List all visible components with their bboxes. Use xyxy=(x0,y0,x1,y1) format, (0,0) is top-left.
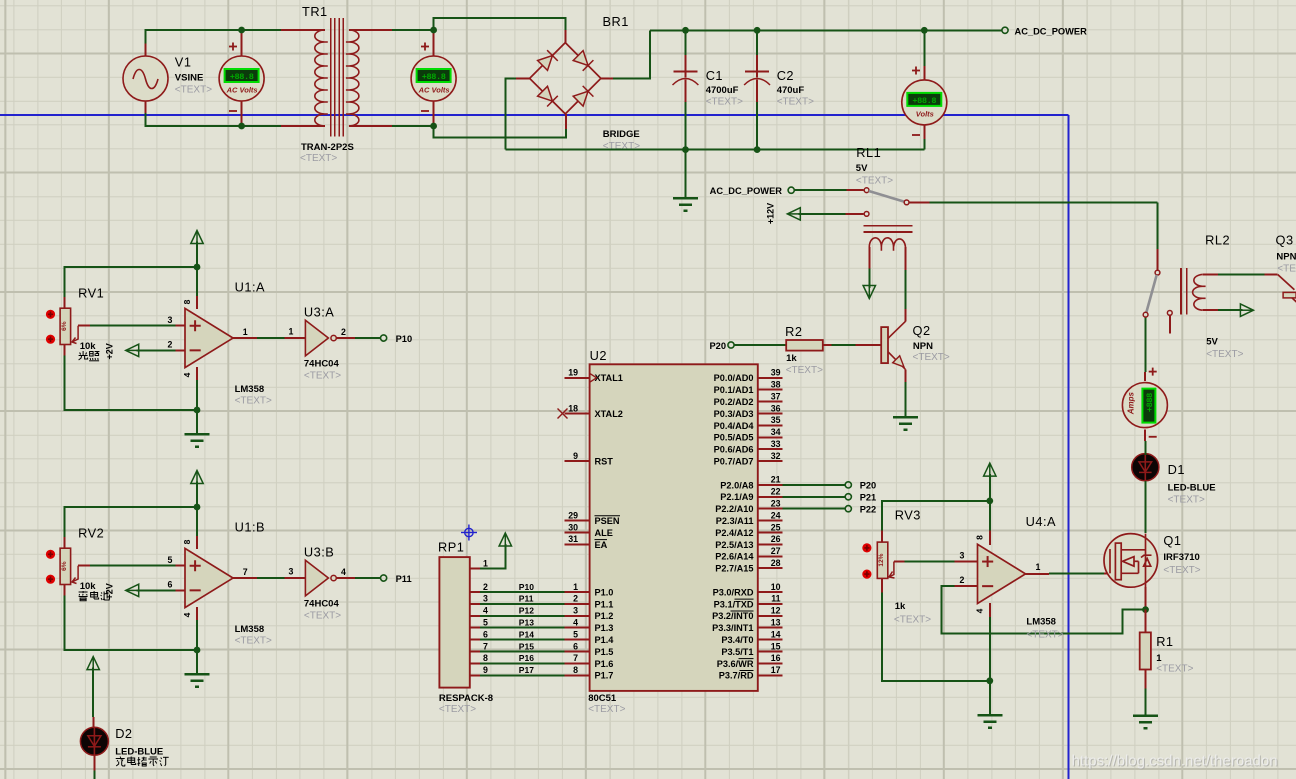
svg-text:<TEXT>: <TEXT> xyxy=(786,365,823,376)
svg-text:P15: P15 xyxy=(519,641,534,651)
svg-text:BR1: BR1 xyxy=(603,14,629,29)
svg-text:<TEXT>: <TEXT> xyxy=(175,85,212,96)
LED D1 body xyxy=(1132,454,1159,481)
power arrow up (U1:B pin8) xyxy=(191,471,203,484)
svg-text:1: 1 xyxy=(1156,653,1162,664)
wire C2 top lead xyxy=(756,30,758,55)
svg-text:9: 9 xyxy=(573,451,578,461)
RV3 wiper arrow xyxy=(889,562,895,579)
wire BR1 plus up to DC rail xyxy=(613,30,650,78)
op-amp U1:B (LM358) xyxy=(185,548,233,607)
RL2 switch NC contact xyxy=(1167,311,1172,316)
wire meter2 bottom to BR1 AC- xyxy=(434,126,566,138)
pin C1 bottom xyxy=(685,80,687,103)
svg-text:P3.6/WR: P3.6/WR xyxy=(717,659,754,669)
wire U4:A feedback (pin2 to Q1 source) xyxy=(942,586,1143,633)
svg-text:1k: 1k xyxy=(786,353,797,364)
terminal P20 (near U2) xyxy=(728,342,734,348)
wire meter1 to TR1 primary top xyxy=(242,29,281,31)
pin R2 right xyxy=(823,344,832,346)
pin U2 P0.4/AD4 stub (pin 35) xyxy=(758,424,783,426)
svg-text:RP1: RP1 xyxy=(438,540,464,555)
pin RL1 NO lead xyxy=(909,201,930,203)
pin V1 top stub xyxy=(145,44,147,57)
resistor R1 body xyxy=(1140,632,1151,669)
svg-text:3: 3 xyxy=(289,567,294,577)
svg-text:P3.7/RD: P3.7/RD xyxy=(719,671,754,681)
pin U2 P0.0/AD0 stub (pin 39) xyxy=(758,377,783,379)
U2 P3.1/TXD overline xyxy=(735,598,754,600)
pin RL2 NC stub xyxy=(1169,315,1171,333)
transistor Q3 partial symbol xyxy=(1278,275,1296,303)
sheet border (blue) xyxy=(0,115,1069,779)
wire U2 P2.0 to terminal P20 xyxy=(783,484,846,486)
RV2 actuator decrement dot xyxy=(46,575,55,584)
svg-text:RV3: RV3 xyxy=(895,508,921,523)
svg-text:D1: D1 xyxy=(1168,462,1185,477)
wire bottom DC rail xyxy=(505,149,924,151)
pin TR1 primary bottom lead xyxy=(281,125,325,127)
pin U2 P1.1 stub (pin 2) xyxy=(565,603,590,605)
transistor Q2 body xyxy=(881,321,905,369)
svg-text:+12V: +12V xyxy=(766,203,776,224)
wire AC_DC_POWER to RL1 pole xyxy=(794,189,846,191)
svg-text:39: 39 xyxy=(771,368,781,378)
junction U1:A pin4/RV1 bottom xyxy=(194,407,201,414)
svg-text:LM358: LM358 xyxy=(235,624,265,635)
svg-text:LED-BLUE: LED-BLUE xyxy=(115,746,163,757)
label xudianchi 蓄电池 (CJK) xyxy=(79,591,88,601)
pin U2 P1.6 stub (pin 7) xyxy=(565,662,590,664)
wire bottom rail to ground xyxy=(685,150,687,198)
pin RP1 pin5 stub xyxy=(470,627,480,629)
RV2 wiper arrow xyxy=(72,566,78,584)
pin U1:A output stub xyxy=(233,337,257,339)
wire TR1 secondary top to meter2 xyxy=(392,29,434,31)
pin U2 P0.1/AD1 stub (pin 38) xyxy=(758,389,783,391)
pin RV1 top stub xyxy=(64,297,66,308)
U2 PSEN overline xyxy=(595,515,621,517)
RV3 actuator increment dot xyxy=(862,543,871,552)
+2V power arrow (U1:B) xyxy=(126,584,139,596)
svg-text:RST: RST xyxy=(595,457,614,467)
svg-text:<TEXT>: <TEXT> xyxy=(304,371,341,382)
wire U1:A pin8 up xyxy=(196,267,198,296)
wire meter3 top lead xyxy=(923,30,925,66)
wire power to U4 junction xyxy=(989,474,991,501)
svg-text:4700uF: 4700uF xyxy=(706,85,739,96)
svg-text:P14: P14 xyxy=(519,629,534,639)
svg-text:P20: P20 xyxy=(860,481,877,491)
wire U1:B pin4 down xyxy=(196,620,198,650)
svg-text:3: 3 xyxy=(168,315,173,325)
pin U3:A output stub xyxy=(337,337,356,339)
pin U1:A - input stub (pin 2) xyxy=(175,349,185,351)
power arrow up (U4:A pin8) xyxy=(984,463,996,476)
pin U2 P0.7/AD7 stub (pin 32) xyxy=(758,460,783,462)
AC voltmeter (right of TR1) xyxy=(411,56,456,101)
pin Q1 gate stub xyxy=(1104,572,1110,574)
pin U4:A - input stub (pin 2) xyxy=(954,585,977,587)
pin RV1 bottom stub xyxy=(64,345,66,356)
svg-text:P1.2: P1.2 xyxy=(595,611,614,621)
resistor pack RP1 body xyxy=(439,557,469,688)
svg-text:XTAL2: XTAL2 xyxy=(595,409,623,419)
svg-text:P1.0: P1.0 xyxy=(595,587,614,597)
pin U2 P3.4/T0 stub (pin 14) xyxy=(758,639,783,641)
watermark text xyxy=(1072,753,1279,771)
pin U2 XTAL1 stub (pin 19) xyxy=(565,377,590,379)
svg-text:<TE: <TE xyxy=(1277,264,1296,275)
RL1 coil core xyxy=(864,226,913,232)
U2 P3.7/RD overline xyxy=(740,670,754,672)
pin U2 P3.6/WR stub (pin 16) xyxy=(758,662,783,664)
svg-text:P0.5/AD5: P0.5/AD5 xyxy=(714,433,754,443)
svg-text:P3.0/RXD: P3.0/RXD xyxy=(713,587,754,597)
meter2 minus sign xyxy=(421,110,429,112)
svg-text:IRF3710: IRF3710 xyxy=(1163,552,1199,563)
wire RL2 coil top to Q3 xyxy=(1218,274,1265,276)
svg-text:U2: U2 xyxy=(590,348,607,363)
wire ammeter to D1 xyxy=(1144,441,1146,455)
svg-text:12: 12 xyxy=(771,606,781,616)
transformer TR1 secondary winding xyxy=(346,30,359,126)
svg-text:35: 35 xyxy=(771,415,781,425)
inverter U3:B (74HC04) xyxy=(305,560,336,596)
pin R1 top xyxy=(1145,610,1147,633)
wire C1 bottom lead xyxy=(685,102,687,150)
power arrow right (RL2 coil) xyxy=(1240,304,1253,316)
pin TR1 primary top lead xyxy=(281,29,325,31)
svg-text:VSINE: VSINE xyxy=(175,73,204,84)
svg-text:<TEXT>: <TEXT> xyxy=(1163,565,1200,576)
svg-text:6: 6 xyxy=(483,629,488,639)
wire U1:A out to U3:A in xyxy=(257,337,284,339)
svg-text:4: 4 xyxy=(975,608,985,613)
svg-text:AC Volts: AC Volts xyxy=(226,86,258,95)
potentiometer RV1 body xyxy=(60,308,71,344)
svg-text:P0.0/AD0: P0.0/AD0 xyxy=(714,373,754,383)
svg-text:P21: P21 xyxy=(860,493,877,503)
pin RP1 pin7 stub xyxy=(470,651,480,653)
svg-text:P2.2/A10: P2.2/A10 xyxy=(715,504,753,514)
RV1 wiper arrow xyxy=(72,326,78,344)
svg-text:P10: P10 xyxy=(396,334,413,344)
svg-text:12%: 12% xyxy=(878,553,885,566)
svg-text:+88.8: +88.8 xyxy=(422,72,446,82)
ground (bridge negative rail) xyxy=(673,198,698,210)
svg-text:P3.4/T0: P3.4/T0 xyxy=(721,635,753,645)
pin U2 P3.7/RD stub (pin 17) xyxy=(758,674,783,676)
capacitor C1 plates xyxy=(673,71,699,85)
diode BR1 top-right xyxy=(573,51,593,71)
svg-text:Q3: Q3 xyxy=(1276,233,1294,248)
svg-text:TRAN-2P2S: TRAN-2P2S xyxy=(301,142,354,153)
svg-text:1k: 1k xyxy=(895,601,906,612)
op-amp U1:A (LM358) xyxy=(185,308,233,367)
svg-text:<TEXT>: <TEXT> xyxy=(1168,495,1205,506)
wire RP1 pin7 to U2 P1.5 xyxy=(480,651,565,653)
RL1 coil contact circle xyxy=(864,212,869,217)
svg-text:<TEXT>: <TEXT> xyxy=(235,636,272,647)
pin U4:A V+ (pin 8) xyxy=(989,531,991,545)
pin U2 P3.1/TXD stub (pin 11) xyxy=(758,603,783,605)
transformer TR1 primary winding xyxy=(315,30,328,126)
svg-text:P2.6/A14: P2.6/A14 xyxy=(715,552,754,562)
U2 P3.2/INT0 overline xyxy=(731,610,754,612)
pin U2 P1.7 stub (pin 8) xyxy=(565,674,590,676)
svg-text:U3:A: U3:A xyxy=(304,305,334,320)
wire C2 bottom lead xyxy=(756,102,758,150)
svg-text:<TEXT>: <TEXT> xyxy=(300,153,337,164)
svg-text:8: 8 xyxy=(182,299,192,304)
meter2 plus sign xyxy=(421,43,429,51)
wire junction to RV3 bottom xyxy=(882,593,990,681)
pin TR1 secondary top lead xyxy=(349,29,392,31)
svg-text:27: 27 xyxy=(771,546,781,556)
wire Q2 emitter to ground xyxy=(905,382,907,417)
pin U2 P3.2/INT0 stub (pin 12) xyxy=(758,615,783,617)
wire C1 top lead xyxy=(685,30,687,55)
svg-text:TR1: TR1 xyxy=(302,4,328,19)
junction C2 bottom xyxy=(754,146,761,153)
+12V power arrow xyxy=(787,208,800,220)
MOSFET Q1 body xyxy=(1104,534,1158,588)
pin U2 P2.1/A9 stub (pin 22) xyxy=(758,496,783,498)
svg-text:31: 31 xyxy=(568,534,578,544)
svg-text:8: 8 xyxy=(483,653,488,663)
origin marker (blue crosshair) xyxy=(461,525,477,541)
pin C2 bottom xyxy=(756,80,758,103)
svg-text:<TEXT>: <TEXT> xyxy=(706,97,743,108)
pin BR1 left xyxy=(516,77,530,79)
svg-text:3: 3 xyxy=(573,606,578,616)
svg-text:BRIDGE: BRIDGE xyxy=(603,129,640,140)
wire TR1 secondary bottom to meter2 xyxy=(392,125,434,127)
pin U2 P1.5 stub (pin 6) xyxy=(565,651,590,653)
pin U2 P0.3/AD3 stub (pin 36) xyxy=(758,413,783,415)
pin C1 top xyxy=(685,55,687,78)
label chongdian zhishideng (CJK) xyxy=(128,757,136,765)
svg-text:<TEXT>: <TEXT> xyxy=(235,396,272,407)
pin U4:A output stub xyxy=(1026,573,1049,575)
pin ammeter top xyxy=(1144,372,1146,381)
wire junction to RV1 top xyxy=(65,267,197,297)
pin U2 P3.3/INT1 stub (pin 13) xyxy=(758,627,783,629)
RL1 coil winding xyxy=(869,238,905,251)
svg-text:6%: 6% xyxy=(61,561,68,571)
pin RV3 bottom stub xyxy=(881,578,883,592)
svg-text:3: 3 xyxy=(483,594,488,604)
svg-text:V1: V1 xyxy=(175,55,192,70)
diode BR1 bottom-left xyxy=(538,86,558,106)
terminal P21 xyxy=(845,494,851,500)
label chongdian zhishideng (CJK) xyxy=(160,757,169,766)
pin U2 P0.6/AD6 stub (pin 33) xyxy=(758,448,783,450)
wire meter2 top to BR1 AC+ (jog) xyxy=(434,18,566,30)
svg-text:74HC04: 74HC04 xyxy=(304,359,340,370)
wire +2V arrow to U1:B - input xyxy=(137,589,176,591)
svg-text:P0.2/AD2: P0.2/AD2 xyxy=(714,397,754,407)
pin U1:B output stub xyxy=(233,577,257,579)
label chongdian zhishideng (CJK) xyxy=(116,757,125,767)
svg-text:<TEXT>: <TEXT> xyxy=(439,704,476,715)
terminal AC_DC_POWER (RL1 input) xyxy=(788,187,794,193)
terminal P20 xyxy=(845,482,851,488)
ground (U1:A) xyxy=(185,434,210,446)
pin U3:A input stub xyxy=(284,337,305,339)
pin U2 P0.5/AD5 stub (pin 34) xyxy=(758,436,783,438)
svg-text:P17: P17 xyxy=(519,665,534,675)
wire RP1 pin5 to U2 P1.3 xyxy=(480,627,565,629)
label chongdian zhishideng (CJK) xyxy=(148,757,158,766)
junction meter2 bottom xyxy=(430,123,437,130)
power arrow up (D2 branch) xyxy=(87,657,99,670)
svg-text:P1.7: P1.7 xyxy=(595,671,614,681)
RL1 switch pole contact xyxy=(864,188,869,193)
svg-text:470uF: 470uF xyxy=(777,85,805,96)
wire RL1 coil left to arrow xyxy=(868,269,870,288)
junction meter3 top xyxy=(921,27,928,34)
svg-text:R2: R2 xyxy=(785,324,802,339)
junction C2 top xyxy=(754,27,761,34)
svg-text:19: 19 xyxy=(568,368,578,378)
pin RP1 pin4 stub xyxy=(470,615,480,617)
svg-text:RV1: RV1 xyxy=(78,286,104,301)
wire U1:B pin8 up xyxy=(196,507,198,536)
pin RL1 coil left lead xyxy=(868,247,870,269)
power arrow up (RP1) xyxy=(499,533,511,546)
pin RV3 wiper lead xyxy=(894,561,904,563)
svg-text:PSEN: PSEN xyxy=(595,516,620,526)
wire to RL2 pole xyxy=(1157,202,1159,249)
wire U1:B pin4 to ground xyxy=(196,650,198,673)
svg-text:RL2: RL2 xyxy=(1205,233,1230,248)
svg-text:1: 1 xyxy=(243,327,248,337)
svg-text:1: 1 xyxy=(573,582,578,592)
potentiometer RV3 body xyxy=(877,542,888,578)
pin RP1 pin3 stub xyxy=(470,603,480,605)
RL2 coil core xyxy=(1181,268,1187,315)
svg-text:26: 26 xyxy=(771,534,781,544)
svg-text:24: 24 xyxy=(771,510,781,520)
svg-text:4: 4 xyxy=(182,372,192,377)
wire V1 bottom rail xyxy=(146,113,242,126)
pin RL2 coil bottom lead xyxy=(1202,309,1218,311)
svg-text:<TEXT>: <TEXT> xyxy=(1026,630,1063,641)
RL2 switch pole contact xyxy=(1155,270,1160,275)
svg-text:P2.3/A11: P2.3/A11 xyxy=(716,516,754,526)
wire U1:B out to U3:B in xyxy=(257,577,284,579)
svg-text:P2.4/A12: P2.4/A12 xyxy=(715,528,753,538)
junction meter2 top xyxy=(430,27,437,34)
pin RV2 wiper lead xyxy=(78,565,90,567)
RL2 coil winding xyxy=(1193,274,1206,310)
wire U4:A out to Q1 gate xyxy=(1049,572,1104,574)
wire RV3 wiper to U4:A + input xyxy=(904,561,954,563)
wire top DC rail xyxy=(650,29,1002,31)
ground (R1) xyxy=(1133,716,1158,728)
pin U1:B V+ (pin 8) xyxy=(196,536,198,549)
svg-text:8: 8 xyxy=(573,665,578,675)
pin U2 P2.2/A10 stub (pin 23) xyxy=(758,508,783,510)
svg-text:P3.5/T1: P3.5/T1 xyxy=(721,647,753,657)
wire RP1 pin9 to U2 P1.7 xyxy=(480,674,565,676)
svg-text:+88.8: +88.8 xyxy=(912,96,936,106)
pin U1:A V+ (pin 8) xyxy=(196,296,198,309)
svg-text:18: 18 xyxy=(568,403,578,413)
svg-text:ALE: ALE xyxy=(595,528,613,538)
wire R2 to Q2 base xyxy=(831,344,855,346)
pin Q2 emitter stub xyxy=(905,370,907,383)
svg-text:7: 7 xyxy=(573,653,578,663)
pin Q2 collector stub xyxy=(905,309,907,322)
pin RL1 coil contact lead xyxy=(845,213,863,215)
svg-text:P0.1/AD1: P0.1/AD1 xyxy=(714,385,754,395)
pin U1:A V- (pin 4) xyxy=(196,367,198,380)
pin RV2 bottom stub xyxy=(64,585,66,596)
svg-text:25: 25 xyxy=(771,522,781,532)
svg-text:P1.5: P1.5 xyxy=(595,647,614,657)
pin U2 P3.0/RXD stub (pin 10) xyxy=(758,591,783,593)
svg-text:P3.3/INT1: P3.3/INT1 xyxy=(712,623,753,633)
pin RL1 coil right lead xyxy=(905,247,907,270)
svg-text:R1: R1 xyxy=(1156,634,1173,649)
svg-text:LED-BLUE: LED-BLUE xyxy=(1168,483,1216,494)
pin RP1 pin6 stub xyxy=(470,639,480,641)
svg-text:5: 5 xyxy=(573,629,578,639)
label guangzhao 光照 (CJK) xyxy=(89,352,99,361)
svg-text:Volts: Volts xyxy=(916,110,934,119)
pin U2 RST stub (pin 9) xyxy=(565,460,590,462)
pin U2 XTAL2 stub (pin 18) xyxy=(565,413,590,415)
svg-text:P0.7/AD7: P0.7/AD7 xyxy=(714,457,754,467)
svg-text:6%: 6% xyxy=(61,321,68,331)
svg-text:<TEXT>: <TEXT> xyxy=(1206,349,1243,360)
wire RP1 pin2 to U2 P1.0 xyxy=(480,591,565,593)
junction U1:A pin8/RV1 top xyxy=(194,264,201,271)
svg-text:<TEXT>: <TEXT> xyxy=(856,176,893,187)
wire R1 to ground xyxy=(1145,689,1147,716)
svg-text:<TEXT>: <TEXT> xyxy=(1156,664,1193,675)
wire U2 P2.1 to terminal P21 xyxy=(783,496,846,498)
svg-text:16: 16 xyxy=(771,653,781,663)
svg-text:P11: P11 xyxy=(396,574,412,584)
svg-text:+2V: +2V xyxy=(105,583,115,599)
label xudianchi 蓄电池 (CJK) xyxy=(91,591,99,599)
svg-text:P2.0/A8: P2.0/A8 xyxy=(720,480,753,490)
pin meter3 top xyxy=(923,66,925,80)
svg-text:P20: P20 xyxy=(709,341,726,351)
pin BR1 bottom xyxy=(565,114,567,129)
svg-text:29: 29 xyxy=(568,510,578,520)
svg-text:33: 33 xyxy=(771,439,781,449)
svg-text:https://blog.csdn.net/theroado: https://blog.csdn.net/theroadon xyxy=(1072,753,1278,770)
pin RL2 coil top lead xyxy=(1202,273,1218,275)
svg-text:5: 5 xyxy=(483,618,488,628)
svg-text:RESPACK-8: RESPACK-8 xyxy=(439,693,493,704)
svg-text:NPN: NPN xyxy=(1276,252,1296,263)
svg-text:21: 21 xyxy=(771,475,781,485)
svg-text:6: 6 xyxy=(168,580,173,590)
wire RL1 coil to Q2 collector xyxy=(905,270,907,309)
svg-text:P11: P11 xyxy=(519,594,534,604)
svg-text:C1: C1 xyxy=(706,68,723,83)
pin D2 cathode xyxy=(93,755,95,770)
ground (U1:B) xyxy=(185,674,210,686)
ground (U4:A) xyxy=(977,715,1002,727)
svg-text:P0.4/AD4: P0.4/AD4 xyxy=(714,421,755,431)
